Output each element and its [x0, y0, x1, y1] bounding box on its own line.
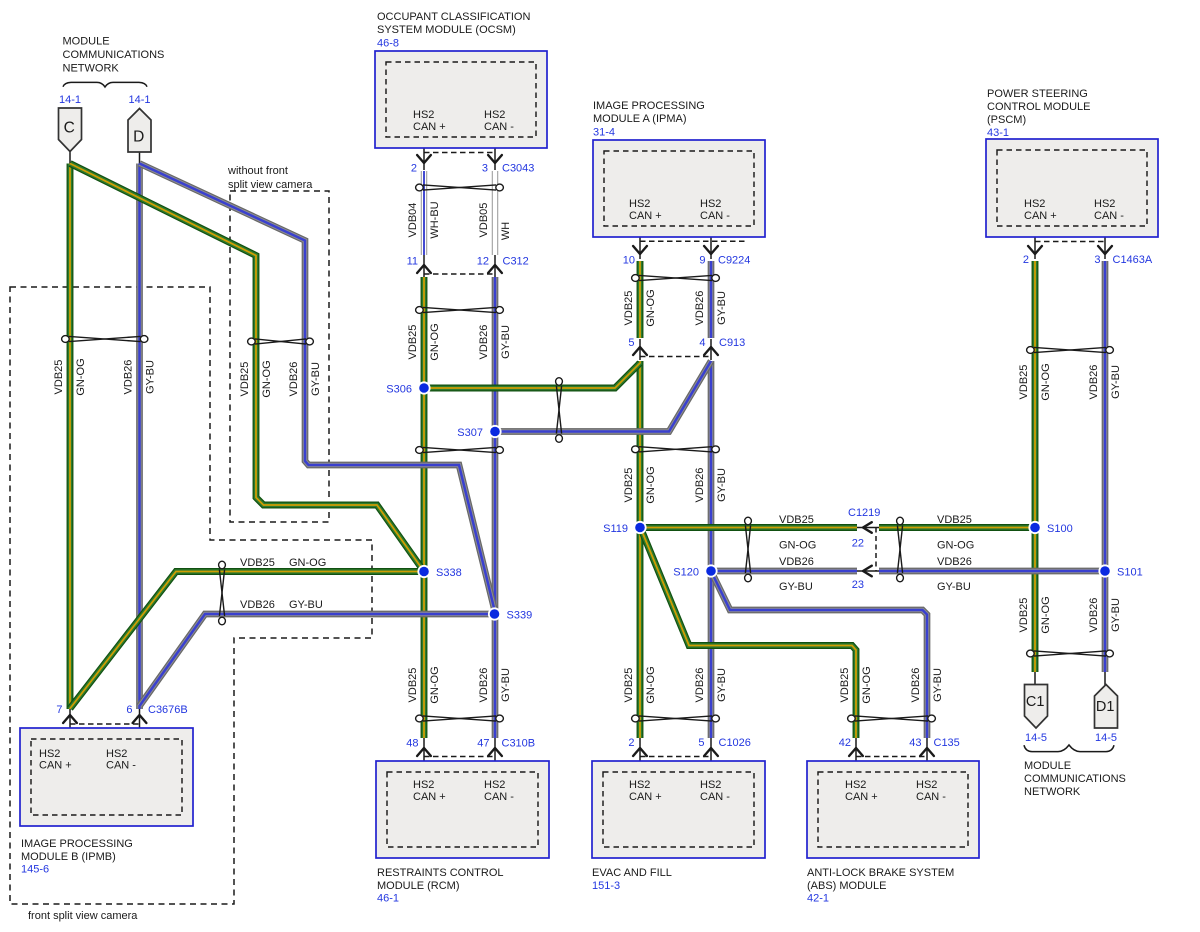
twisted pair IPMA [632, 275, 640, 282]
svg-text:7: 7 [56, 704, 62, 716]
twisted pair without-camera wires [248, 338, 256, 345]
svg-text:COMMUNICATIONS: COMMUNICATIONS [1024, 773, 1126, 785]
wire VDB26 GY-BU vertical IPMA pin 9 to C913 pin 4 [708, 261, 715, 338]
IPMA pin 10 stub [639, 228, 641, 259]
svg-text:CAN -: CAN - [916, 791, 946, 803]
svg-text:MODULE: MODULE [1024, 760, 1071, 772]
dashed region: front split view camera [10, 287, 372, 904]
svg-text:split view camera: split view camera [228, 179, 313, 191]
svg-text:VDB25: VDB25 [623, 468, 635, 503]
svg-text:GN-OG: GN-OG [1040, 596, 1052, 633]
svg-text:(ABS) MODULE: (ABS) MODULE [807, 880, 886, 892]
svg-text:VDB26: VDB26 [694, 668, 706, 703]
wire VDB25 GN-OG connector C branch through without-camera region to S338 [70, 164, 424, 572]
connector D1 stub [1104, 671, 1106, 685]
arrow into C310B pin 48 [417, 748, 431, 756]
svg-text:GY-BU: GY-BU [1110, 598, 1122, 632]
svg-text:C3676B: C3676B [148, 704, 188, 716]
connector C312 dashed line [424, 273, 495, 275]
OCSM pin 2 stub [423, 130, 425, 170]
C312 pin 11 stub [423, 255, 425, 277]
connector C1 [1025, 685, 1048, 729]
svg-text:43-1: 43-1 [987, 127, 1009, 139]
svg-text:D: D [133, 129, 144, 146]
top-left brace [63, 82, 147, 87]
C1219 arrow pin 22 [863, 522, 872, 533]
arrow into C3676B pin 6 [133, 715, 147, 723]
svg-text:VDB25: VDB25 [239, 362, 251, 397]
wire VDB25 GN-OG C1219 to S100 right segment [879, 524, 1035, 531]
svg-text:11: 11 [407, 256, 418, 268]
svg-text:C312: C312 [503, 256, 529, 268]
connector C stub [69, 150, 71, 164]
connector D1 [1095, 685, 1118, 729]
svg-text:C9224: C9224 [718, 255, 750, 267]
RCM pin 48 stub [423, 738, 425, 776]
svg-text:CAN +: CAN + [39, 760, 72, 772]
wire VDB25 GN-OG S338 to IPMB pin 7 [70, 572, 424, 709]
wire VDB25 GN-OG vertical C312 to RCM pin 48 [421, 277, 428, 738]
module PSCM box [986, 139, 1158, 237]
svg-text:NETWORK: NETWORK [63, 63, 120, 75]
twisted pair above RCM [416, 715, 424, 722]
twisted pair S338 S339 wires [219, 561, 226, 569]
wire VDB25 GN-OG S119 branch to ABS pin 42 [641, 529, 856, 738]
svg-text:MODULE A (IPMA): MODULE A (IPMA) [593, 113, 687, 125]
svg-text:14-1: 14-1 [59, 94, 81, 106]
svg-text:22: 22 [852, 538, 864, 550]
splice S306 [417, 381, 430, 394]
svg-text:C1463A: C1463A [1113, 254, 1153, 266]
svg-text:GN-OG: GN-OG [75, 358, 87, 395]
svg-text:HS2: HS2 [1024, 198, 1045, 210]
svg-text:42: 42 [839, 737, 851, 749]
svg-text:COMMUNICATIONS: COMMUNICATIONS [63, 49, 165, 61]
connector C1463A dashed line [1035, 241, 1105, 243]
svg-text:14-1: 14-1 [128, 94, 150, 106]
svg-text:HS2: HS2 [413, 779, 434, 791]
svg-text:CAN -: CAN - [484, 121, 514, 133]
RCM pin 47 stub [494, 738, 496, 776]
twisted pair below C312 [416, 307, 424, 314]
splice S100 [1028, 521, 1041, 534]
svg-text:S119: S119 [603, 523, 628, 535]
svg-text:GN-OG: GN-OG [289, 557, 326, 569]
svg-text:42-1: 42-1 [807, 893, 829, 905]
svg-text:C1: C1 [1026, 694, 1045, 710]
svg-text:WH-BU: WH-BU [429, 201, 441, 238]
svg-text:GY-BU: GY-BU [289, 599, 323, 611]
svg-text:GN-OG: GN-OG [645, 289, 657, 326]
twisted pair right of C1219 [897, 517, 904, 525]
svg-text:D1: D1 [1096, 699, 1115, 715]
svg-text:VDB25: VDB25 [407, 325, 419, 360]
svg-text:OCCUPANT CLASSIFICATION: OCCUPANT CLASSIFICATION [377, 11, 530, 23]
connector D stub [139, 151, 141, 164]
svg-text:VDB25: VDB25 [623, 668, 635, 703]
svg-text:GN-OG: GN-OG [779, 540, 816, 552]
module EVAC AND FILL box [592, 761, 765, 858]
arrow into C913 pin 4 [704, 347, 718, 355]
arrow into C1026 pin 2 [633, 748, 647, 756]
twisted pair OCSM [416, 184, 424, 191]
ABS pin 42 stub [855, 738, 857, 776]
svg-text:VDB26: VDB26 [478, 668, 490, 703]
svg-text:145-6: 145-6 [21, 864, 49, 876]
svg-text:IMAGE PROCESSING: IMAGE PROCESSING [21, 838, 133, 850]
wire VDB26 GY-BU vertical C913 pin 4 to EVAC pin 5 [708, 361, 715, 738]
svg-text:C1219: C1219 [848, 507, 880, 519]
svg-text:VDB26: VDB26 [779, 556, 814, 568]
connector C [59, 108, 82, 152]
bottom-right brace [1024, 745, 1114, 752]
module IPMA box [593, 140, 765, 237]
svg-text:C3043: C3043 [502, 163, 534, 175]
svg-text:S339: S339 [507, 610, 533, 622]
wire VDB25 GN-OG S119 to S100 left segment [640, 524, 857, 531]
twisted pair S306 S307 wires [556, 378, 563, 386]
svg-text:GY-BU: GY-BU [716, 291, 728, 325]
svg-text:C310B: C310B [502, 738, 536, 750]
arrow into C1463A pin 2 [1028, 246, 1042, 254]
twisted pair above ABS [848, 715, 856, 722]
svg-text:GY-BU: GY-BU [500, 668, 512, 702]
connector C135 dashed line [856, 756, 927, 758]
PSCM pin 2 stub [1034, 228, 1036, 259]
arrow into C135 pin 43 [920, 748, 934, 756]
svg-text:HS2: HS2 [39, 748, 60, 760]
svg-text:HS2: HS2 [700, 198, 721, 210]
svg-text:HS2: HS2 [629, 779, 650, 791]
svg-text:4: 4 [699, 337, 705, 349]
svg-text:14-5: 14-5 [1025, 732, 1047, 744]
arrow into C3043 pin 3 [488, 155, 502, 163]
wire VDB05 WH OCSM pin 3 to C312 pin 12 [492, 171, 498, 255]
svg-text:CAN +: CAN + [413, 791, 446, 803]
svg-text:VDB05: VDB05 [478, 203, 490, 238]
svg-text:CAN -: CAN - [700, 210, 730, 222]
svg-text:CAN +: CAN + [629, 791, 662, 803]
svg-text:CAN -: CAN - [484, 791, 514, 803]
connector D [128, 109, 151, 153]
twisted pair above C1 D1 [1027, 650, 1035, 657]
svg-text:VDB25: VDB25 [1018, 598, 1030, 633]
wire VDB26 GY-BU vertical C312 to RCM pin 47 [492, 277, 499, 738]
splice S307 [488, 425, 501, 438]
EVAC pin 2 stub [639, 738, 641, 776]
wire VDB26 GY-BU vertical PSCM pin 3 to D1 [1102, 261, 1109, 672]
connector C1 stub [1034, 671, 1036, 685]
svg-text:HS2: HS2 [106, 748, 127, 760]
C913 pin 4 stub [710, 339, 712, 360]
svg-text:RESTRAINTS CONTROL: RESTRAINTS CONTROL [377, 867, 504, 879]
C1219 bridge wire CAN- [855, 570, 880, 572]
svg-text:CAN +: CAN + [1024, 210, 1057, 222]
module ABS box [807, 761, 979, 858]
arrow into C312 pin 12 [488, 265, 502, 273]
module IPMB box [20, 728, 193, 826]
svg-text:S338: S338 [436, 567, 462, 579]
wire VDB25 GN-OG vertical PSCM pin 2 to C1 [1032, 261, 1039, 672]
svg-text:2: 2 [411, 163, 417, 175]
svg-text:C135: C135 [934, 737, 960, 749]
svg-text:S100: S100 [1047, 523, 1073, 535]
svg-text:CAN +: CAN + [413, 121, 446, 133]
svg-text:46-1: 46-1 [377, 893, 399, 905]
wire VDB26 GY-BU C1219 to S101 right segment [879, 568, 1105, 575]
connector C310B dashed line [424, 756, 495, 758]
svg-text:HS2: HS2 [916, 779, 937, 791]
svg-text:VDB04: VDB04 [407, 203, 419, 238]
svg-text:ANTI-LOCK BRAKE SYSTEM: ANTI-LOCK BRAKE SYSTEM [807, 867, 954, 879]
svg-text:VDB26: VDB26 [1088, 598, 1100, 633]
svg-text:GN-OG: GN-OG [645, 666, 657, 703]
ABS pin 43 stub [926, 738, 928, 776]
svg-text:MODULE (RCM): MODULE (RCM) [377, 880, 460, 892]
svg-text:12: 12 [477, 256, 489, 268]
svg-text:MODULE B (IPMB): MODULE B (IPMB) [21, 851, 116, 863]
svg-text:front split view camera: front split view camera [28, 910, 138, 922]
connector C913 dashed line [640, 356, 711, 358]
arrow into C310B pin 47 [488, 748, 502, 756]
PSCM pin 3 stub [1104, 228, 1106, 259]
svg-text:GY-BU: GY-BU [932, 668, 944, 702]
svg-text:VDB26: VDB26 [694, 291, 706, 326]
wire VDB26 GY-BU branch C913 to S307 [495, 361, 711, 432]
svg-text:GY-BU: GY-BU [716, 468, 728, 502]
svg-text:GY-BU: GY-BU [144, 360, 156, 394]
svg-text:VDB26: VDB26 [288, 362, 300, 397]
wire VDB25 GN-OG branch C913 to S306 [424, 363, 640, 388]
svg-text:23: 23 [852, 579, 864, 591]
svg-text:VDB25: VDB25 [839, 668, 851, 703]
svg-text:14-5: 14-5 [1095, 732, 1117, 744]
svg-text:C: C [64, 120, 75, 137]
wire VDB25 GN-OG vertical connector C to IPMB pin 7 [67, 164, 74, 710]
svg-text:HS2: HS2 [484, 779, 505, 791]
connector C9224 dashed line [640, 240, 746, 242]
svg-text:C1026: C1026 [719, 737, 751, 749]
svg-text:GY-BU: GY-BU [310, 362, 322, 396]
svg-text:3: 3 [482, 163, 488, 175]
OCSM pin 3 stub [494, 130, 496, 170]
svg-text:GY-BU: GY-BU [1110, 365, 1122, 399]
wire VDB25 GN-OG vertical C913 pin 5 to EVAC pin 2 [637, 361, 644, 738]
svg-text:MODULE: MODULE [63, 36, 110, 48]
svg-text:VDB26: VDB26 [122, 360, 134, 395]
svg-text:VDB25: VDB25 [779, 514, 814, 526]
svg-text:VDB25: VDB25 [1018, 365, 1030, 400]
svg-text:IMAGE PROCESSING: IMAGE PROCESSING [593, 100, 705, 112]
dashed region: without front split view camera [230, 191, 329, 522]
svg-text:(PSCM): (PSCM) [987, 114, 1026, 126]
IPMB pin 7 stub [69, 709, 71, 745]
svg-text:VDB25: VDB25 [407, 668, 419, 703]
svg-text:48: 48 [406, 738, 418, 750]
module RCM box [376, 761, 549, 858]
connector C1026 dashed line [640, 756, 711, 758]
svg-text:C913: C913 [719, 337, 745, 349]
svg-text:VDB25: VDB25 [623, 291, 635, 326]
svg-text:9: 9 [699, 255, 705, 267]
svg-text:S120: S120 [673, 567, 699, 579]
svg-text:VDB26: VDB26 [478, 325, 490, 360]
twisted pair below C913 [632, 446, 640, 453]
svg-text:CAN +: CAN + [845, 791, 878, 803]
svg-text:6: 6 [126, 704, 132, 716]
wire VDB26 GY-BU S120 to S101 left segment [711, 568, 857, 575]
svg-text:31-4: 31-4 [593, 127, 615, 139]
svg-text:GN-OG: GN-OG [261, 360, 273, 397]
svg-text:GN-OG: GN-OG [645, 466, 657, 503]
svg-text:2: 2 [628, 737, 634, 749]
svg-text:CAN -: CAN - [700, 791, 730, 803]
arrow into C312 pin 11 [417, 265, 431, 273]
svg-text:10: 10 [623, 255, 635, 267]
svg-text:VDB26: VDB26 [694, 468, 706, 503]
svg-text:GY-BU: GY-BU [500, 325, 512, 359]
connector C3043 dashed line [424, 152, 495, 154]
svg-text:GN-OG: GN-OG [1040, 363, 1052, 400]
svg-text:GN-OG: GN-OG [429, 323, 441, 360]
svg-text:GN-OG: GN-OG [937, 540, 974, 552]
connector C1219 dashed line [875, 528, 877, 572]
splice S120 [704, 564, 717, 577]
svg-text:HS2: HS2 [1094, 198, 1115, 210]
svg-text:HS2: HS2 [700, 779, 721, 791]
arrow into C9224 pin 10 [633, 246, 647, 254]
EVAC pin 5 stub [710, 738, 712, 776]
twisted pair PSCM [1027, 347, 1035, 354]
svg-text:EVAC AND FILL: EVAC AND FILL [592, 867, 672, 879]
twisted pair mid main pair [416, 447, 424, 454]
twisted pair connector C D wires [62, 336, 70, 343]
wire VDB26 GY-BU vertical connector D to IPMB pin 6 [136, 164, 143, 710]
wire VDB26 GY-BU S339 to IPMB pin 6 [140, 614, 495, 706]
svg-text:SYSTEM MODULE (OCSM): SYSTEM MODULE (OCSM) [377, 24, 516, 36]
twisted pair left of C1219 [745, 517, 752, 525]
svg-text:5: 5 [698, 737, 704, 749]
svg-text:GN-OG: GN-OG [861, 666, 873, 703]
svg-text:3: 3 [1094, 254, 1100, 266]
splice S101 [1098, 564, 1111, 577]
svg-text:47: 47 [477, 738, 489, 750]
svg-text:S307: S307 [457, 427, 483, 439]
svg-text:GY-BU: GY-BU [937, 581, 971, 593]
arrow into C9224 pin 9 [704, 246, 718, 254]
svg-text:VDB25: VDB25 [53, 360, 65, 395]
arrow into C3676B pin 7 [63, 715, 77, 723]
svg-text:CAN -: CAN - [106, 760, 136, 772]
svg-text:VDB26: VDB26 [1088, 365, 1100, 400]
svg-text:151-3: 151-3 [592, 880, 620, 892]
svg-text:HS2: HS2 [845, 779, 866, 791]
svg-text:2: 2 [1023, 254, 1029, 266]
IPMB pin 6 stub [139, 709, 141, 745]
arrow into C1463A pin 3 [1098, 246, 1112, 254]
svg-text:HS2: HS2 [629, 198, 650, 210]
arrow into C1026 pin 5 [704, 748, 718, 756]
arrow into C3043 pin 2 [417, 155, 431, 163]
svg-text:43: 43 [909, 737, 921, 749]
svg-text:VDB26: VDB26 [937, 556, 972, 568]
connector C3676B dashed line [70, 723, 140, 725]
svg-text:HS2: HS2 [484, 109, 505, 121]
C1219 bridge wire CAN+ [855, 527, 880, 529]
wire VDB26 GY-BU S120 branch to ABS pin 43 [712, 573, 927, 738]
splice S339 [488, 607, 501, 620]
svg-text:VDB25: VDB25 [240, 557, 275, 569]
twisted pair above EVAC [632, 715, 640, 722]
wire VDB25 GN-OG vertical IPMA pin 10 to C913 pin 5 [637, 261, 644, 338]
svg-text:CAN -: CAN - [1094, 210, 1124, 222]
svg-text:46-8: 46-8 [377, 38, 399, 50]
C913 pin 5 stub [639, 339, 641, 360]
svg-text:S306: S306 [386, 384, 412, 396]
arrow into C913 pin 5 [633, 347, 647, 355]
wire VDB26 GY-BU connector D branch through without-camera region to S339 [140, 164, 495, 611]
svg-text:VDB26: VDB26 [240, 599, 275, 611]
IPMA pin 9 stub [710, 228, 712, 259]
svg-text:NETWORK: NETWORK [1024, 786, 1081, 798]
module OCSM box [375, 51, 547, 148]
svg-text:WH: WH [500, 222, 512, 240]
C312 pin 12 stub [494, 255, 496, 277]
svg-text:CONTROL MODULE: CONTROL MODULE [987, 101, 1091, 113]
splice S119 [633, 521, 646, 534]
arrow into C135 pin 42 [849, 748, 863, 756]
svg-text:S101: S101 [1117, 567, 1143, 579]
svg-text:VDB26: VDB26 [910, 668, 922, 703]
svg-text:POWER STEERING: POWER STEERING [987, 88, 1088, 100]
splice S338 [417, 565, 430, 578]
svg-text:5: 5 [628, 337, 634, 349]
svg-text:GY-BU: GY-BU [716, 668, 728, 702]
C1219 arrow pin 23 [863, 566, 872, 577]
svg-text:HS2: HS2 [413, 109, 434, 121]
svg-text:VDB25: VDB25 [937, 514, 972, 526]
svg-text:CAN +: CAN + [629, 210, 662, 222]
svg-text:without front: without front [227, 165, 288, 177]
svg-text:GY-BU: GY-BU [779, 581, 813, 593]
wire VDB04 WH-BU OCSM pin 2 to C312 pin 11 [421, 171, 427, 255]
svg-text:GN-OG: GN-OG [429, 666, 441, 703]
